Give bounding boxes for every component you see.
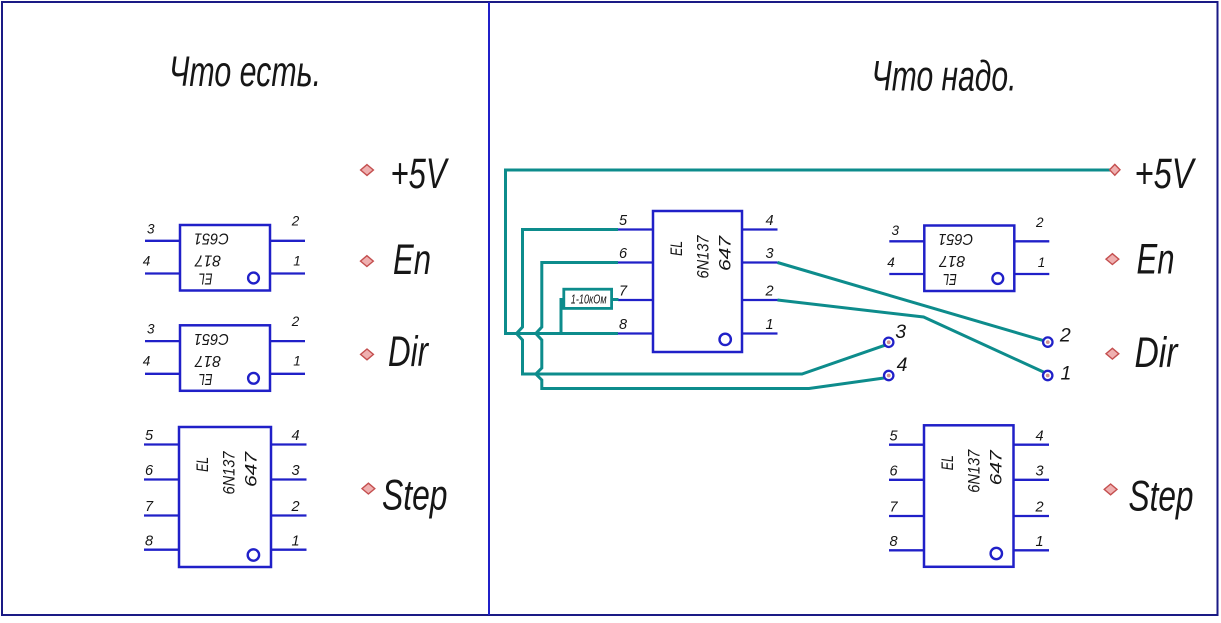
U4 (En) pin 2 bbox=[1014, 240, 1049, 242]
U6 (Step) pin 4 bbox=[1014, 444, 1050, 446]
U6 (Step) pin 8 bbox=[889, 549, 924, 551]
U1 (En) pin-1 marker circle bbox=[248, 273, 259, 284]
svg-text:3: 3 bbox=[895, 321, 906, 343]
optocoupler U2 (Dir) EL817 C651 body bbox=[180, 325, 270, 391]
svg-text:En: En bbox=[393, 236, 431, 284]
svg-text:+5V: +5V bbox=[1135, 150, 1197, 198]
svg-text:1: 1 bbox=[1038, 255, 1046, 270]
svg-text:2: 2 bbox=[1035, 500, 1044, 516]
terminal pad 3 bbox=[884, 338, 893, 347]
optocoupler U5 EL 6N137 647 body bbox=[653, 211, 742, 352]
wire end arrow diamond at +5V label bbox=[1110, 164, 1120, 175]
panel divider line bbox=[488, 2, 490, 615]
wire U5 pin 2 to terminal 1 bbox=[778, 300, 1045, 372]
node marker Dir (left panel) bbox=[361, 349, 374, 360]
svg-text:3: 3 bbox=[147, 221, 155, 236]
U1 (En) pin 1 bbox=[270, 272, 305, 274]
U6 (Step) pin 3 bbox=[1014, 479, 1050, 481]
U5 pin 7 bbox=[618, 299, 653, 301]
U5 pin 3 bbox=[742, 261, 778, 263]
wire R1 left lead down to +5V net bbox=[561, 300, 565, 334]
U4 (En) pin-1 marker circle bbox=[992, 273, 1003, 284]
svg-text:5: 5 bbox=[890, 428, 899, 444]
node marker Step (left panel) bbox=[362, 483, 375, 494]
node marker Dir (right panel) bbox=[1106, 348, 1119, 359]
svg-text:8: 8 bbox=[619, 317, 627, 333]
node marker En (right panel) bbox=[1106, 254, 1119, 265]
svg-text:4: 4 bbox=[887, 255, 895, 270]
svg-text:7: 7 bbox=[890, 500, 899, 516]
wire U5 pin 5 net: left, down with hop over +5V wire, right to terminal 3 bbox=[517, 230, 885, 375]
svg-text:7: 7 bbox=[145, 499, 154, 515]
svg-text:2: 2 bbox=[1035, 215, 1044, 230]
svg-text:3: 3 bbox=[147, 322, 155, 337]
svg-text:2: 2 bbox=[291, 314, 300, 329]
svg-text:1: 1 bbox=[293, 354, 301, 369]
svg-text:1: 1 bbox=[1036, 534, 1044, 550]
optocoupler U6 (Step) EL 6N137 647 body bbox=[924, 425, 1014, 567]
node marker En (left panel) bbox=[361, 256, 374, 267]
terminal pad 2 bbox=[1043, 337, 1052, 346]
svg-text:C651: C651 bbox=[938, 230, 973, 247]
U3 (Step) pin 5 bbox=[144, 443, 179, 445]
svg-text:4: 4 bbox=[143, 354, 151, 369]
svg-text:2: 2 bbox=[1059, 325, 1071, 347]
svg-text:817: 817 bbox=[194, 252, 221, 269]
svg-text:6: 6 bbox=[890, 464, 899, 480]
resistor R1 1-10kOhm body bbox=[564, 289, 612, 308]
wire +5V net: top rail, left bus down to U5 pin 8 bbox=[506, 170, 1112, 334]
svg-text:EL: EL bbox=[943, 270, 957, 287]
svg-text:8: 8 bbox=[890, 534, 898, 550]
U5 pin 8 bbox=[618, 332, 653, 334]
svg-text:4: 4 bbox=[1036, 428, 1044, 444]
optocoupler U3 (Step) EL 6N137 647 body bbox=[179, 427, 271, 567]
U2 (Dir) pin 4 bbox=[145, 373, 180, 375]
svg-text:Step: Step bbox=[1129, 473, 1194, 521]
U6 (Step) pin 2 bbox=[1014, 515, 1050, 517]
svg-text:4: 4 bbox=[897, 354, 908, 376]
svg-text:817: 817 bbox=[194, 352, 221, 369]
U5 pin 6 bbox=[618, 261, 653, 263]
svg-text:C651: C651 bbox=[194, 330, 229, 347]
U3 (Step) pin-1 marker circle bbox=[248, 549, 259, 560]
U6 (Step) pin-1 marker circle bbox=[991, 548, 1002, 559]
U1 (En) pin 4 bbox=[145, 272, 180, 274]
U6 (Step) pin 1 bbox=[1014, 549, 1050, 551]
svg-text:Dir: Dir bbox=[1135, 329, 1179, 377]
U2 (Dir) pin 2 bbox=[270, 340, 305, 342]
U3 (Step) pin 3 bbox=[271, 478, 307, 480]
U4 (En) pin 1 bbox=[1014, 273, 1049, 275]
U5 pin-1 marker circle bbox=[720, 334, 731, 345]
svg-text:2: 2 bbox=[291, 499, 300, 515]
U4 (En) pin 4 bbox=[889, 273, 924, 275]
U2 (Dir) pin 3 bbox=[145, 340, 180, 342]
svg-text:5: 5 bbox=[145, 428, 154, 444]
svg-text:647: 647 bbox=[988, 449, 1006, 485]
optocoupler U4 (En) EL817 C651 body bbox=[924, 226, 1014, 292]
svg-text:EL: EL bbox=[199, 370, 213, 387]
U6 (Step) pin 7 bbox=[889, 515, 924, 517]
svg-text:4: 4 bbox=[292, 428, 300, 444]
terminal pad 1 bbox=[1043, 371, 1052, 380]
svg-text:EL: EL bbox=[194, 457, 212, 472]
svg-text:6: 6 bbox=[145, 463, 154, 479]
U6 (Step) pin 5 bbox=[889, 444, 924, 446]
U5 pin 4 bbox=[742, 228, 778, 230]
U3 (Step) pin 4 bbox=[271, 443, 307, 445]
U3 (Step) pin 7 bbox=[144, 514, 179, 516]
svg-text:8: 8 bbox=[145, 533, 153, 549]
svg-text:7: 7 bbox=[619, 284, 628, 300]
svg-text:Dir: Dir bbox=[388, 328, 429, 376]
svg-text:+5V: +5V bbox=[391, 150, 450, 198]
svg-text:2: 2 bbox=[765, 284, 774, 300]
svg-text:647: 647 bbox=[717, 235, 735, 271]
U1 (En) pin 3 bbox=[145, 240, 180, 242]
svg-text:1: 1 bbox=[766, 317, 774, 333]
svg-text:6N137: 6N137 bbox=[695, 235, 713, 279]
svg-text:5: 5 bbox=[619, 213, 628, 229]
wire U5 pin 6 net: left, down with hops, right to terminal 4 bbox=[536, 263, 885, 389]
svg-text:3: 3 bbox=[1036, 464, 1044, 480]
svg-text:647: 647 bbox=[243, 451, 261, 487]
svg-text:817: 817 bbox=[938, 252, 965, 269]
U3 (Step) pin 8 bbox=[144, 549, 179, 551]
node marker Step (right panel) bbox=[1104, 484, 1117, 495]
svg-text:1: 1 bbox=[1061, 363, 1072, 385]
U5 pin 2 bbox=[742, 299, 778, 301]
svg-text:1: 1 bbox=[292, 533, 300, 549]
node marker +5V (left panel) bbox=[361, 165, 374, 176]
svg-text:2: 2 bbox=[291, 214, 300, 229]
svg-text:4: 4 bbox=[766, 213, 774, 229]
svg-text:3: 3 bbox=[766, 246, 774, 262]
wire R1 right lead to U5 pin 7 bbox=[612, 298, 619, 301]
U1 (En) pin 2 bbox=[270, 240, 305, 242]
U5 pin 5 bbox=[618, 228, 653, 230]
U4 (En) pin 3 bbox=[889, 240, 924, 242]
svg-text:Что надо.: Что надо. bbox=[872, 54, 1017, 101]
terminal pad 4 bbox=[884, 371, 893, 380]
U3 (Step) pin 2 bbox=[271, 514, 307, 516]
svg-text:EL: EL bbox=[939, 455, 957, 470]
U2 (Dir) pin-1 marker circle bbox=[248, 373, 259, 384]
svg-text:1-10кОм: 1-10кОм bbox=[571, 293, 607, 307]
svg-text:EL: EL bbox=[199, 270, 213, 287]
optocoupler U1 (En) EL817 C651 body bbox=[180, 225, 270, 291]
svg-text:Step: Step bbox=[382, 472, 448, 520]
svg-text:Что есть.: Что есть. bbox=[169, 49, 321, 96]
U6 (Step) pin 6 bbox=[889, 479, 924, 481]
svg-text:C651: C651 bbox=[194, 230, 229, 247]
svg-text:3: 3 bbox=[892, 223, 900, 238]
U2 (Dir) pin 1 bbox=[270, 373, 305, 375]
svg-text:6: 6 bbox=[619, 246, 628, 262]
svg-text:En: En bbox=[1137, 236, 1175, 284]
U3 (Step) pin 6 bbox=[144, 478, 179, 480]
svg-text:4: 4 bbox=[143, 253, 151, 268]
U5 pin 1 bbox=[742, 332, 778, 334]
svg-text:6N137: 6N137 bbox=[966, 449, 984, 493]
svg-text:3: 3 bbox=[292, 463, 300, 479]
svg-text:1: 1 bbox=[293, 253, 301, 268]
wire U5 pin 3 diagonal to terminal 2 bbox=[778, 263, 1044, 341]
svg-text:EL: EL bbox=[668, 241, 686, 256]
svg-text:6N137: 6N137 bbox=[221, 451, 239, 495]
U3 (Step) pin 1 bbox=[271, 549, 307, 551]
